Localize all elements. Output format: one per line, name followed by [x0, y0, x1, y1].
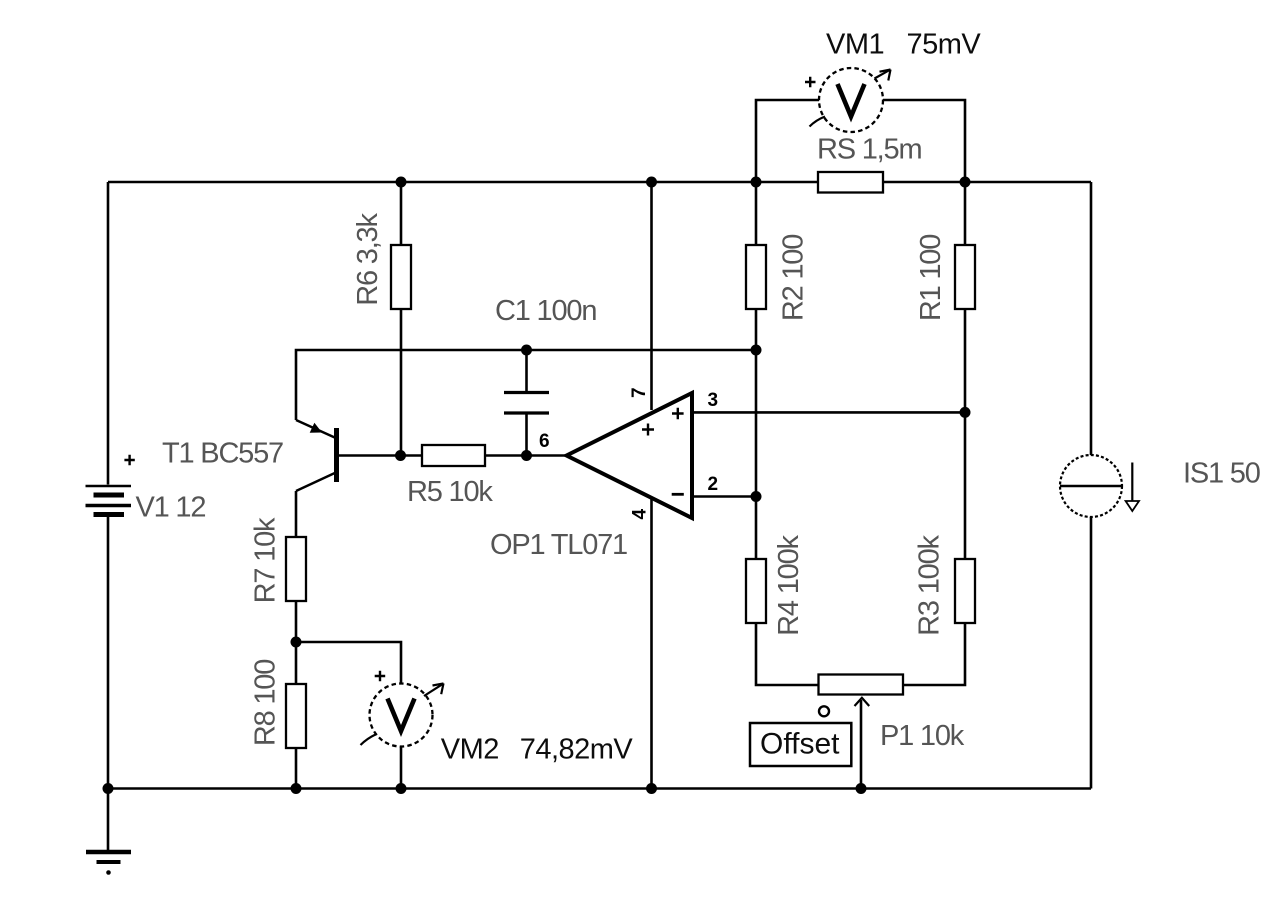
- wire collector lead: [295, 491, 298, 537]
- svg-text:R4 100k: R4 100k: [773, 534, 805, 635]
- resistor R1: [915, 235, 975, 321]
- svg-text:IS1 50: IS1 50: [1183, 458, 1260, 490]
- wire top rail: [108, 181, 756, 184]
- wire R1 to R3: [964, 309, 967, 559]
- wire op-amp pin4 stub: [650, 499, 653, 789]
- wire C1 top stem: [525, 350, 528, 391]
- svg-text:4: 4: [630, 509, 651, 520]
- svg-text:R3 100k: R3 100k: [914, 534, 946, 635]
- svg-text:VM1: VM1: [826, 29, 884, 61]
- resistor R6: [352, 213, 411, 309]
- node C1 bottom: [521, 450, 532, 461]
- wire P1 wiper lead: [860, 700, 863, 789]
- wire left rail lower: [107, 517, 110, 789]
- node shunt right: [960, 177, 971, 188]
- wire VM1 loop right: [883, 100, 965, 182]
- potentiometer P1: [819, 675, 904, 717]
- svg-text:R8 100: R8 100: [250, 660, 282, 746]
- node pin2 R2: [751, 491, 762, 502]
- node emitter R2 branch: [751, 345, 762, 356]
- svg-text:7: 7: [629, 388, 650, 398]
- op-amp U1 OP1: [567, 393, 693, 518]
- wire right rail upper: [1090, 182, 1093, 455]
- wire shunt right lead: [883, 181, 965, 184]
- node pin4 bottom: [646, 783, 657, 794]
- wire C1 bottom stem: [525, 414, 528, 456]
- wire R3 to P1 right: [903, 623, 965, 685]
- wire R4 to P1 left: [756, 623, 819, 685]
- node top rail op supply: [646, 177, 657, 188]
- wire R1 top lead: [964, 182, 967, 245]
- resistor R7: [250, 517, 307, 603]
- node shunt left: [751, 177, 762, 188]
- current source IS1: [1060, 455, 1139, 517]
- wire R8 bottom lead: [295, 748, 298, 789]
- svg-text:R7 10k: R7 10k: [250, 517, 282, 603]
- svg-text:74,82mV: 74,82mV: [520, 734, 634, 766]
- svg-text:P1 10k: P1 10k: [880, 720, 965, 752]
- wire emitter to R2 branch: [296, 350, 756, 420]
- svg-text:2: 2: [708, 474, 718, 495]
- node C1 top: [521, 345, 532, 356]
- capacitor C1: [504, 393, 549, 414]
- svg-text:R6 3,3k: R6 3,3k: [352, 213, 384, 306]
- svg-text:6: 6: [539, 431, 549, 452]
- svg-text:R1 100: R1 100: [915, 235, 947, 321]
- node R7 R8 VM2: [291, 637, 302, 648]
- wire R6 top lead: [400, 182, 403, 245]
- wire R5 to op-amp output: [485, 454, 567, 457]
- wire R6 bottom lead: [400, 309, 403, 456]
- wire left rail upper: [107, 182, 110, 485]
- voltmeter VM2: [361, 671, 444, 747]
- svg-text:75mV: 75mV: [907, 29, 982, 61]
- svg-text:V1 12: V1 12: [136, 492, 206, 524]
- resistor R3: [914, 534, 976, 635]
- node ground rail: [103, 783, 114, 794]
- offset button: [750, 723, 851, 766]
- svg-text:Offset: Offset: [760, 728, 840, 761]
- svg-text:R2 100: R2 100: [778, 235, 810, 321]
- wire base to R5: [339, 454, 422, 457]
- wire bottom rail: [108, 787, 1091, 790]
- svg-text:RS 1,5m: RS 1,5m: [817, 134, 921, 166]
- svg-text:R5 10k: R5 10k: [407, 476, 493, 508]
- resistor R8: [250, 660, 307, 748]
- resistor RS shunt: [817, 134, 921, 193]
- battery V1: [86, 455, 135, 515]
- wire pin2 to R2 R4 node: [694, 495, 756, 498]
- resistor R4: [746, 534, 805, 635]
- wire op-amp pin7 stub: [650, 182, 653, 410]
- node P1 wiper bottom: [856, 783, 867, 794]
- node VM2 bottom: [396, 783, 407, 794]
- wire right rail lower: [1090, 517, 1093, 789]
- wire ground stem: [107, 789, 110, 853]
- wire VM2 branch: [296, 642, 401, 684]
- node base R6: [395, 450, 406, 461]
- resistor R5: [407, 445, 493, 508]
- wire shunt left lead: [756, 181, 818, 184]
- wire R7 to R8: [295, 601, 298, 684]
- resistor R2: [746, 235, 810, 321]
- wire VM1 loop left: [756, 100, 819, 182]
- node pin3 R1: [960, 407, 971, 418]
- svg-text:C1 100n: C1 100n: [495, 295, 596, 327]
- svg-text:T1 BC557: T1 BC557: [162, 438, 283, 470]
- voltmeter VM1: [805, 68, 891, 132]
- wire R2 top lead: [755, 182, 758, 245]
- wire pin3 to R1 R3 node: [694, 411, 965, 414]
- transistor Q1 T1 BC557: [296, 420, 339, 491]
- wire top right: [965, 181, 1091, 184]
- ground: [86, 852, 131, 862]
- wire R2 to R4: [755, 309, 758, 559]
- svg-text:OP1 TL071: OP1 TL071: [490, 529, 627, 561]
- node top R6: [396, 177, 407, 188]
- wire VM2 bottom lead: [400, 747, 403, 789]
- node R8 bottom: [291, 783, 302, 794]
- svg-text:VM2: VM2: [441, 734, 499, 766]
- svg-text:3: 3: [708, 390, 718, 411]
